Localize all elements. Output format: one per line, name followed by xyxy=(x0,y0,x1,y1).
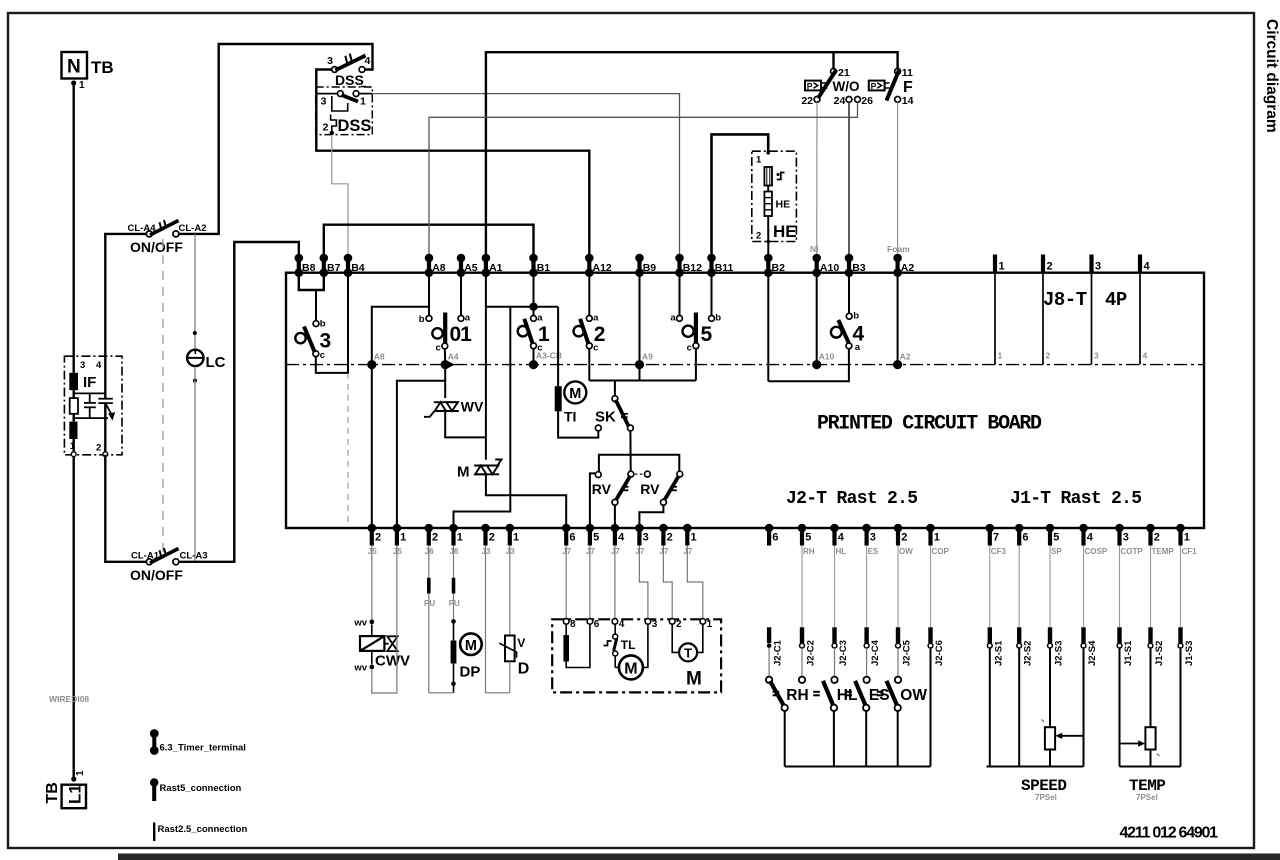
svg-text:A10: A10 xyxy=(819,352,835,362)
wire lamp feed xyxy=(194,234,196,350)
cam switch 3 xyxy=(313,321,319,327)
wire TI bottom to SK throw xyxy=(558,411,598,437)
svg-text:6.3_Timer_terminal: 6.3_Timer_terminal xyxy=(160,743,246,754)
IF inductor upper xyxy=(69,373,78,390)
wire drop to J2-C4 xyxy=(866,546,868,628)
svg-text:HE: HE xyxy=(776,199,791,211)
terminal A8 xyxy=(425,254,446,277)
connector J2-T pin 5 xyxy=(798,524,815,556)
wire J1-S1 to temp bus xyxy=(1119,648,1121,767)
svg-text:DSS: DSS xyxy=(338,117,372,135)
wire drop to J2-C3 xyxy=(834,546,836,628)
connector J7 pin 1 xyxy=(683,524,697,556)
svg-text:HL: HL xyxy=(836,547,847,556)
wire A4 node down to WV xyxy=(444,365,446,398)
legend Rast5 connection xyxy=(150,778,158,786)
wire drops to selector contacts xyxy=(768,648,770,677)
svg-text:3: 3 xyxy=(652,619,658,630)
wire selector bus xyxy=(785,766,931,768)
lamp LC xyxy=(187,350,203,366)
connector J8-T pin 3 xyxy=(1092,255,1102,365)
drain pump DP xyxy=(453,546,455,622)
svg-text:4: 4 xyxy=(1144,261,1151,273)
wire J2-S4 wiper xyxy=(1083,648,1085,767)
svg-text:B3: B3 xyxy=(852,262,866,274)
selector switch OW xyxy=(895,677,901,683)
svg-text:M: M xyxy=(457,464,470,481)
svg-text:V: V xyxy=(517,636,525,650)
svg-text:TI: TI xyxy=(564,409,576,425)
connector J7 pin 2 xyxy=(659,524,673,556)
svg-text:b: b xyxy=(419,314,425,325)
terminal B11 xyxy=(707,254,733,277)
svg-text:14: 14 xyxy=(902,95,914,107)
wire ON/OFF left feed xyxy=(105,234,146,562)
wire drop to J2-S3 xyxy=(1049,546,1051,628)
svg-text:4: 4 xyxy=(838,532,845,544)
terminal A10 xyxy=(812,254,839,277)
svg-text:B1: B1 xyxy=(537,262,551,274)
svg-text:2: 2 xyxy=(96,443,101,454)
svg-text:J3: J3 xyxy=(506,547,515,556)
svg-text:ON/OFF: ON/OFF xyxy=(130,567,183,583)
motor pin 2 xyxy=(669,619,675,625)
connector J1-T pin 1 xyxy=(1176,524,1197,556)
svg-text:B7: B7 xyxy=(327,262,341,274)
svg-text:2: 2 xyxy=(901,532,907,544)
svg-text:4211 012 64901: 4211 012 64901 xyxy=(1120,825,1219,842)
svg-text:1: 1 xyxy=(999,261,1005,273)
connector J7 pin 5 xyxy=(586,524,600,556)
svg-text:a: a xyxy=(670,313,676,324)
svg-text:DSS: DSS xyxy=(335,72,364,88)
wire drop to J2-C2 xyxy=(801,546,803,628)
connector J2-C1 xyxy=(767,627,784,666)
connector J2-C3 xyxy=(832,627,849,666)
switch ON/OFF lower (CL-A1 / CL-A3) xyxy=(146,559,152,565)
svg-text:4: 4 xyxy=(1087,532,1094,544)
connector J2-T pin 2 xyxy=(894,524,914,556)
svg-text:wv: wv xyxy=(353,618,367,629)
wire drop to J1-S3 xyxy=(1180,546,1182,628)
wire M triac output to J7 pin6 xyxy=(486,474,566,528)
svg-text:b: b xyxy=(320,319,326,330)
svg-text:CF1: CF1 xyxy=(1182,547,1198,556)
svg-text:5: 5 xyxy=(593,532,599,544)
connector J6 pin 2 xyxy=(425,524,439,556)
svg-text:PU: PU xyxy=(449,599,460,608)
svg-text:CWV: CWV xyxy=(375,653,410,670)
timer motor TI xyxy=(557,307,559,387)
svg-text:B11: B11 xyxy=(715,262,734,274)
motor unit M box xyxy=(552,619,721,692)
svg-text:J7: J7 xyxy=(659,547,668,556)
motor pin 3 xyxy=(645,619,651,625)
svg-text:c: c xyxy=(436,343,441,354)
svg-text:3: 3 xyxy=(1123,532,1129,544)
svg-text:2: 2 xyxy=(323,122,329,134)
svg-text:3: 3 xyxy=(870,532,876,544)
connector J5 pin 1 xyxy=(393,524,407,556)
svg-text:5: 5 xyxy=(701,323,713,346)
wire DSS contact1 to B12 terminal xyxy=(372,94,679,256)
wire heater feed B11 xyxy=(712,134,769,256)
svg-text:J7: J7 xyxy=(635,547,644,556)
svg-text:A12: A12 xyxy=(593,262,612,274)
IF capacitor C1 xyxy=(84,393,96,418)
svg-text:2: 2 xyxy=(1154,532,1160,544)
svg-text:b: b xyxy=(715,313,721,324)
wire J7 pin1 to motor pin1 xyxy=(687,546,703,619)
svg-text:TL: TL xyxy=(621,638,636,652)
svg-text:1: 1 xyxy=(513,532,519,544)
svg-text:1: 1 xyxy=(691,532,697,544)
svg-text:Rast2.5_connection: Rast2.5_connection xyxy=(158,824,248,835)
valve CWV xyxy=(369,619,374,624)
svg-text:A2: A2 xyxy=(901,262,915,274)
connector J2-T pin 4 xyxy=(830,524,846,556)
svg-text:L1: L1 xyxy=(66,784,85,804)
svg-text:A8: A8 xyxy=(432,262,446,274)
triac WV xyxy=(424,402,459,417)
svg-text:J2-C2: J2-C2 xyxy=(806,640,817,666)
svg-text:J7: J7 xyxy=(611,547,620,556)
svg-text:3: 3 xyxy=(80,360,85,371)
svg-text:Circuit diagram: Circuit diagram xyxy=(1263,19,1280,133)
wire CL-A2 to DSS xyxy=(179,44,373,234)
svg-text:7: 7 xyxy=(993,532,999,544)
svg-text:J8-T: J8-T xyxy=(1043,289,1087,311)
mechanical link dashes ON/OFF xyxy=(162,239,164,556)
wire RV right common to J7 pin3 xyxy=(639,505,663,528)
wire N line down left side xyxy=(72,85,74,356)
svg-text:M: M xyxy=(624,661,637,678)
connector J1-T pin 6 xyxy=(1015,524,1029,546)
svg-text:J7: J7 xyxy=(562,547,571,556)
svg-text:TB: TB xyxy=(91,58,114,77)
svg-text:J2-T Rast 2.5: J2-T Rast 2.5 xyxy=(786,489,917,509)
svg-text:J2-C1: J2-C1 xyxy=(773,639,784,666)
connector J3 pin 2 xyxy=(481,524,495,556)
svg-text:2: 2 xyxy=(489,532,495,544)
svg-text:B12: B12 xyxy=(683,262,702,274)
IF capacitor C2 xyxy=(98,399,113,403)
legend Rast2.5 connection xyxy=(153,823,155,842)
wire A1 to switch F xyxy=(486,52,898,256)
wire DSS contact3 to A12 terminal xyxy=(316,70,589,257)
svg-text:CL-A3: CL-A3 xyxy=(180,551,208,562)
timer cam line xyxy=(286,364,1204,366)
svg-text:4: 4 xyxy=(1143,351,1148,361)
terminal B9 xyxy=(635,254,656,277)
svg-text:4: 4 xyxy=(365,55,371,67)
svg-text:26: 26 xyxy=(861,95,873,107)
svg-text:1: 1 xyxy=(707,619,713,630)
connector J1-S2 xyxy=(1148,627,1165,666)
svg-text:HE: HE xyxy=(773,222,797,241)
wire B9 column and node A9 xyxy=(639,273,641,381)
terminal B8 xyxy=(295,254,316,277)
svg-text:2: 2 xyxy=(432,532,438,544)
pressure switch F xyxy=(895,69,901,75)
wire drop to J2-S4 xyxy=(1083,546,1085,628)
wire J7 pin2 to motor pin2 xyxy=(663,546,672,619)
wire drop to J2-C5 xyxy=(897,546,899,628)
legend 6.3 timer terminal xyxy=(150,729,159,738)
svg-text:3: 3 xyxy=(1094,351,1099,361)
wire J6 pin2 branch xyxy=(428,546,430,693)
svg-text:J1-T Rast 2.5: J1-T Rast 2.5 xyxy=(1010,489,1141,509)
wire drop to W/O contact 21 xyxy=(832,52,834,68)
wire A5 to contact a xyxy=(460,273,462,316)
svg-text:4: 4 xyxy=(96,360,102,371)
svg-text:W/O: W/O xyxy=(833,79,860,94)
svg-text:A5: A5 xyxy=(464,262,478,274)
wire 26 to A8 terminal xyxy=(429,102,858,256)
svg-text:3: 3 xyxy=(643,532,649,544)
svg-text:7PSel: 7PSel xyxy=(1035,793,1057,802)
connector J8-T pin 1 xyxy=(995,255,1005,365)
wire DP loop bottom xyxy=(429,692,454,694)
svg-text:OW: OW xyxy=(900,687,927,704)
wire temp wiper xyxy=(1120,743,1141,745)
svg-text:CL-A2: CL-A2 xyxy=(179,223,207,234)
svg-text:2: 2 xyxy=(375,532,381,544)
svg-text:8: 8 xyxy=(570,619,576,630)
wire A1 column inside PCB xyxy=(485,273,487,460)
svg-text:1: 1 xyxy=(998,351,1003,361)
terminal B7 xyxy=(320,254,341,277)
node A4 cam junction with arrow xyxy=(444,349,446,361)
svg-text:J7: J7 xyxy=(586,547,595,556)
IF left line segments xyxy=(72,356,74,452)
svg-text:P: P xyxy=(871,81,877,91)
svg-text:J2-C5: J2-C5 xyxy=(902,639,913,666)
potentiometer SPEED xyxy=(1049,648,1051,727)
terminal A5 xyxy=(457,254,478,277)
connector J2-C6 xyxy=(928,627,945,666)
cam switch 2 xyxy=(588,273,590,316)
terminal A12 xyxy=(585,254,612,277)
svg-text:CF3: CF3 xyxy=(991,547,1007,556)
svg-text:J6: J6 xyxy=(450,547,459,556)
svg-text:B8: B8 xyxy=(302,262,316,274)
wire drop to J2-C6 xyxy=(930,546,932,628)
node rail A1-B1-TI xyxy=(486,306,558,308)
svg-text:3: 3 xyxy=(327,55,333,67)
connector J1-T pin 4 xyxy=(1079,524,1108,556)
svg-text:J7: J7 xyxy=(683,547,692,556)
wire J7 pin3 to motor pin3 xyxy=(639,546,648,619)
svg-text:1: 1 xyxy=(79,80,85,91)
wire J2-S2 to speed bus xyxy=(1018,648,1020,767)
svg-text:a: a xyxy=(593,313,599,324)
wire temp bus xyxy=(1120,766,1181,768)
svg-text:A10: A10 xyxy=(820,262,839,274)
svg-text:2: 2 xyxy=(667,532,673,544)
wire A8 node xyxy=(372,273,429,528)
wire B2 column inside PCB xyxy=(767,273,769,382)
pressure switch W/O xyxy=(831,69,837,75)
selector switch HL xyxy=(831,677,837,683)
svg-text:6: 6 xyxy=(1022,532,1028,544)
wire J3 pin2 branch xyxy=(486,546,510,693)
svg-text:1: 1 xyxy=(1184,532,1190,544)
svg-text:B9: B9 xyxy=(643,262,657,274)
svg-text:3: 3 xyxy=(321,96,327,108)
svg-text:J1-S1: J1-S1 xyxy=(1123,640,1134,666)
wire J5 pin2 to CWV xyxy=(371,546,373,620)
svg-text:T: T xyxy=(684,646,692,661)
connector J6 pin 1 xyxy=(449,524,463,556)
svg-text:P: P xyxy=(807,81,813,91)
svg-text:J5: J5 xyxy=(393,547,402,556)
svg-text:1: 1 xyxy=(756,155,762,166)
motor pin 1 xyxy=(700,619,706,625)
svg-text:11: 11 xyxy=(902,67,913,79)
connector J7 pin 3 xyxy=(635,524,649,556)
svg-text:wv: wv xyxy=(353,663,367,674)
switch SK xyxy=(614,381,616,396)
connector J1-T pin 3 xyxy=(1115,524,1143,556)
wire J7 pin6 to motor pin8 xyxy=(565,546,567,619)
node A8 cam junction xyxy=(367,360,376,369)
svg-text:2: 2 xyxy=(676,619,682,630)
svg-text:A8: A8 xyxy=(374,352,385,362)
svg-text:COP: COP xyxy=(932,547,950,556)
wire speed bus xyxy=(987,766,1084,768)
svg-text:B2: B2 xyxy=(772,262,786,274)
svg-text:F: F xyxy=(903,79,913,96)
IF wire links xyxy=(74,393,108,418)
terminal B4 xyxy=(344,254,365,277)
heating element HE resistor xyxy=(767,186,769,192)
wire drop to J2-S1 xyxy=(989,546,991,628)
switch DSS upper xyxy=(332,67,338,73)
wire 14 to A2 terminal xyxy=(897,102,899,256)
tacho generator T xyxy=(672,624,679,652)
svg-text:J2-S2: J2-S2 xyxy=(1023,641,1034,666)
svg-text:1: 1 xyxy=(934,532,940,544)
svg-text:ES: ES xyxy=(868,547,879,556)
svg-text:D: D xyxy=(518,661,530,678)
svg-text:CL-A1: CL-A1 xyxy=(131,551,160,562)
connector J5 pin 2 xyxy=(368,524,382,556)
wire J2-S1 to speed bus xyxy=(989,648,991,767)
svg-text:J2-C4: J2-C4 xyxy=(870,639,881,666)
svg-text:WV: WV xyxy=(461,399,484,415)
svg-text:COSP: COSP xyxy=(1085,547,1108,556)
terminal block L1 (TB) xyxy=(71,776,76,781)
svg-text:4: 4 xyxy=(619,619,625,630)
cam switch 01 xyxy=(426,316,432,322)
terminal block N (TB) xyxy=(62,52,88,79)
heater HE box xyxy=(752,151,797,241)
dashed drop below B4 node xyxy=(347,373,349,524)
terminal B3 xyxy=(845,254,866,277)
svg-text:2: 2 xyxy=(594,323,606,346)
connector J8-T pin 4 xyxy=(1140,255,1151,365)
wire J7 pin4 to motor pin4 xyxy=(614,546,616,619)
connector J8-T pin 2 xyxy=(1043,255,1053,365)
svg-text:J6: J6 xyxy=(425,547,434,556)
svg-text:IF: IF xyxy=(83,374,96,391)
svg-text:4: 4 xyxy=(618,532,625,544)
wire CWV return to J5 pin1 xyxy=(372,546,397,694)
motor stator winding xyxy=(565,624,567,635)
printed circuit board box xyxy=(286,273,1204,528)
svg-text:6: 6 xyxy=(772,532,778,544)
motor pin 4 xyxy=(612,619,618,625)
svg-text:DP: DP xyxy=(460,664,481,681)
svg-text:6: 6 xyxy=(594,619,600,630)
svg-text:J5: J5 xyxy=(368,547,377,556)
NTC sensor D xyxy=(509,546,511,636)
bottom scan band xyxy=(118,854,1280,860)
svg-text:J2-S1: J2-S1 xyxy=(993,640,1004,666)
connector J2-S1 xyxy=(987,627,1004,666)
svg-text:A9: A9 xyxy=(642,352,653,362)
IF line through (vertical second line) xyxy=(104,356,106,455)
wire switch3 c to B4 column xyxy=(316,273,348,373)
thermal fuse xyxy=(764,167,772,186)
interference filter IF box xyxy=(64,356,122,455)
svg-text:2: 2 xyxy=(1047,261,1053,273)
relay switch RV right xyxy=(677,471,683,477)
connector J2-T pin 3 xyxy=(862,524,879,556)
svg-text:SK: SK xyxy=(595,409,616,426)
svg-text:a: a xyxy=(465,313,471,324)
svg-text:M: M xyxy=(465,638,477,654)
wire 24 to B3 terminal xyxy=(848,102,850,256)
svg-text:1: 1 xyxy=(75,770,86,776)
svg-text:NI: NI xyxy=(810,244,819,254)
svg-text:22: 22 xyxy=(801,95,813,107)
svg-text:3: 3 xyxy=(1095,261,1101,273)
svg-text:TEMP: TEMP xyxy=(1152,547,1175,556)
svg-text:J2-S3: J2-S3 xyxy=(1054,641,1065,666)
connector J7 pin 6 xyxy=(562,524,576,556)
thermal switch TL xyxy=(614,624,616,634)
switch DSS lower xyxy=(316,87,373,135)
wire RV crossover xyxy=(599,455,679,472)
svg-text:PRINTED CIRCUIT BOARD: PRINTED CIRCUIT BOARD xyxy=(817,413,1042,436)
motor pin 8 xyxy=(563,619,569,625)
svg-text:J2-S4: J2-S4 xyxy=(1087,640,1098,666)
svg-text:CL-A4: CL-A4 xyxy=(128,223,157,234)
node B1 junction xyxy=(529,303,537,311)
svg-text:OW: OW xyxy=(899,547,913,556)
svg-text:5: 5 xyxy=(1053,532,1059,544)
svg-text:RH: RH xyxy=(803,547,815,556)
svg-text:1: 1 xyxy=(400,532,406,544)
connector J2-C4 xyxy=(864,627,881,666)
wire A10 column and node A10 xyxy=(816,273,818,365)
svg-text:6: 6 xyxy=(569,532,575,544)
svg-text:b: b xyxy=(853,311,859,322)
svg-text:PU: PU xyxy=(424,599,435,608)
motor rotor M xyxy=(614,656,616,667)
connector J2-S2 xyxy=(1017,627,1034,666)
svg-text:J2-C6: J2-C6 xyxy=(934,640,945,666)
wire CL-A3 to B8 terminal xyxy=(179,242,299,562)
svg-text:1: 1 xyxy=(457,532,463,544)
svg-text:TB: TB xyxy=(44,782,61,803)
svg-text:RH: RH xyxy=(786,687,808,704)
IF earth arrow xyxy=(105,403,111,414)
wire B8-B7 bridge xyxy=(299,273,324,290)
switch ON/OFF upper (CL-A4 / CL-A2) xyxy=(146,231,152,237)
